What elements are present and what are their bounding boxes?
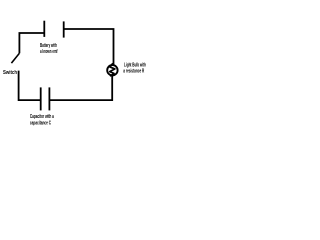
svg-text:a resistance R: a resistance R	[123, 69, 144, 75]
svg-text:Switch: Switch	[3, 70, 17, 76]
svg-text:Capacitor with a: Capacitor with a	[30, 114, 54, 120]
svg-text:capacitance C: capacitance C	[30, 120, 51, 126]
svg-text:a known emf: a known emf	[40, 49, 58, 55]
